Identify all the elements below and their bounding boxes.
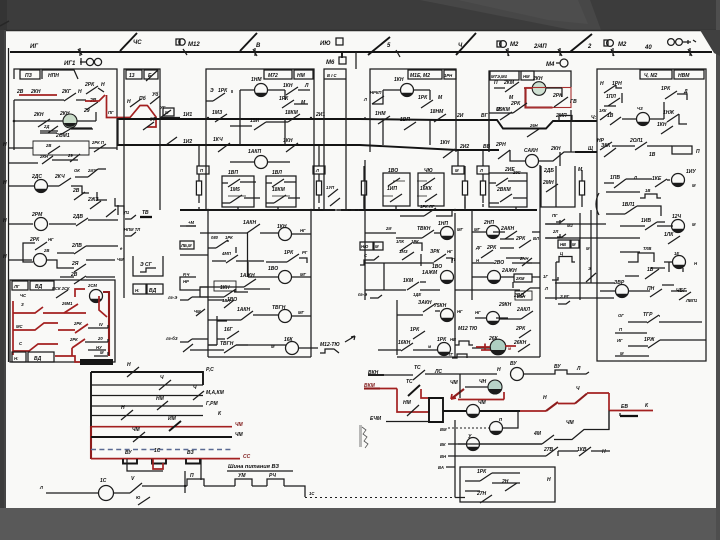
svg-text:ВГ: ВГ [481, 113, 489, 119]
svg-text:ВА: ВА [438, 465, 444, 470]
svg-text:ИГ1: ИГ1 [64, 61, 76, 67]
black frame box [429, 398, 443, 422]
header НВ М boxes [558, 240, 570, 248]
coil П [490, 422, 503, 435]
bracket mark in right box [596, 193, 599, 215]
svg-text:1ЛК: 1ЛК [664, 232, 674, 238]
wire y238 [545, 237, 640, 239]
coil 1БКН [441, 309, 454, 322]
svg-text:16КК: 16КК [420, 186, 433, 192]
node tick [558, 48, 562, 56]
row8 dashed blue [91, 449, 232, 451]
svg-text:ТЛВ: ТЛВ [643, 246, 651, 251]
black drop x201 [200, 459, 202, 480]
svg-text:20: 20 [97, 336, 103, 341]
svg-text:МГ: МГ [457, 227, 463, 232]
wire upper chain [142, 485, 187, 487]
svg-text:2РК: 2РК [515, 326, 526, 332]
svg-text:Р,Ч: Р,Ч [183, 272, 190, 277]
svg-text:2ДВ: 2ДВ [72, 214, 83, 220]
svg-text:ТГ: ТГ [448, 352, 454, 357]
row7 rail [91, 436, 232, 438]
svg-text:НГ: НГ [475, 310, 481, 315]
svg-text:1АКН: 1АКН [237, 307, 250, 313]
svg-text:М12-ТЮ: М12-ТЮ [320, 342, 340, 348]
wire box row y100 [14, 99, 55, 101]
red row2b [58, 329, 75, 331]
box outline [597, 69, 706, 361]
svg-text:16К: 16К [284, 337, 294, 343]
red row З extended [64, 312, 86, 314]
svg-text:М4: М4 [546, 62, 555, 68]
wire feeder x199 [198, 146, 200, 166]
svg-text:1Е: 1Е [674, 251, 679, 256]
svg-text:МГ: МГ [298, 310, 304, 315]
svg-text:Ч: Ч [576, 386, 580, 392]
header cell П [197, 166, 209, 174]
svg-text:+М: +М [188, 220, 194, 225]
coil 1РК [438, 343, 451, 356]
svg-text:1КМ: 1КМ [403, 278, 414, 284]
coil ЧН teal [488, 380, 502, 394]
wire [591, 450, 610, 452]
svg-text:2НН: 2НН [519, 256, 529, 261]
wire y210 верт feeders [238, 206, 516, 210]
svg-text:З: З [21, 302, 24, 307]
wire row y320 [208, 315, 279, 320]
svg-text:1РК: 1РК [225, 235, 233, 240]
wire rows [600, 285, 687, 291]
svg-text:15И: 15И [250, 118, 260, 124]
wire inner [372, 90, 430, 104]
svg-text:1Г: 1Г [543, 274, 548, 279]
wire drop ТС row to red ЧМ row [459, 374, 461, 398]
svg-text:М: М [100, 350, 104, 355]
symbol ОО circles [668, 39, 675, 46]
wire row [475, 318, 521, 319]
right gray edge [716, 0, 720, 540]
box bottom dashes [597, 360, 706, 362]
wire feeder x319 [318, 146, 320, 166]
header ВД bottom [28, 352, 54, 362]
svg-text:18НМ: 18НМ [430, 109, 444, 115]
red feed to coil [524, 87, 533, 89]
svg-text:П: П [190, 473, 194, 479]
svg-text:40: 40 [644, 45, 652, 51]
svg-text:2РК: 2РК [510, 101, 521, 107]
svg-text:2РК: 2РК [73, 321, 82, 326]
junction dots y210 [207, 209, 209, 211]
wire stub right of box [160, 117, 180, 119]
svg-text:ЧН: ЧН [479, 379, 487, 385]
wire coil right [546, 87, 562, 89]
svg-text:1РК: 1РК [418, 95, 428, 101]
box row y148 box [33, 141, 89, 155]
svg-text:П: П [696, 149, 700, 155]
wire row [60, 276, 115, 278]
svg-text:2/4П: 2/4П [533, 44, 547, 50]
svg-text:М,А,КМ: М,А,КМ [206, 390, 225, 396]
coil 1НМ [255, 84, 268, 97]
wire row y263 [380, 258, 452, 263]
dashes on mid bus [337, 209, 359, 211]
box outline [489, 71, 571, 152]
svg-text:М2: М2 [510, 42, 519, 48]
wire y346 band link [236, 344, 248, 346]
wire y224 [545, 223, 606, 225]
svg-text:2КН: 2КН [30, 89, 41, 95]
svg-text:НВ: НВ [560, 242, 566, 247]
svg-text:18КМ: 18КМ [272, 187, 286, 193]
insulator slash [368, 37, 390, 55]
wire row y233 [208, 232, 278, 234]
svg-text:НГ: НГ [300, 228, 306, 233]
header Н: bottom [12, 352, 26, 362]
svg-text:НР: НР [183, 279, 189, 284]
red drop [608, 393, 610, 411]
svg-text:1ВЛ1: 1ВЛ1 [622, 202, 635, 208]
wire row y320 col1 stub [305, 315, 311, 317]
wire verticals [556, 166, 591, 300]
underline [227, 470, 293, 472]
wire П right riser [503, 411, 518, 428]
wire feeder x483 [482, 151, 484, 166]
contact 2КМ low extra [520, 288, 530, 296]
svg-text:ТВГН: ТВГН [220, 341, 234, 347]
svg-text:ЗАКН: ЗАКН [418, 300, 432, 306]
svg-text:ЧС: ЧС [20, 293, 27, 298]
contact step3 [106, 209, 116, 217]
svg-text:2Н: 2Н [501, 479, 509, 485]
svg-text:ТВГН: ТВГН [272, 305, 286, 311]
box outline [124, 69, 160, 130]
svg-text:Ю: Ю [136, 495, 141, 500]
black tail НУ [88, 349, 106, 351]
wire row [620, 222, 673, 226]
svg-text:1АЖМ: 1АЖМ [422, 270, 438, 276]
svg-text:1ДЕ: 1ДЕ [413, 292, 421, 297]
svg-text:2ДС: 2ДС [31, 174, 42, 180]
header НПН [42, 70, 78, 79]
bus И2 gap fills [490, 150, 597, 152]
svg-text:1КЧ: 1КЧ [213, 137, 223, 143]
svg-text:ВД: ВД [149, 288, 157, 294]
coil 2КН green [63, 114, 77, 128]
svg-text:ВУ: ВУ [554, 364, 561, 370]
resistor col3 [361, 181, 366, 195]
svg-text:2РК: 2РК [515, 236, 526, 242]
svg-text:ИГ: ИГ [617, 338, 623, 343]
svg-text:ЕЧМ: ЕЧМ [370, 416, 382, 422]
header НМ [294, 70, 313, 79]
svg-text:ИЮ: ИЮ [320, 41, 331, 47]
svg-text:1МЗ: 1МЗ [212, 110, 223, 116]
wire y148 right [89, 147, 117, 149]
row2 rail [91, 384, 203, 386]
svg-text:Пб: Пб [139, 95, 147, 102]
svg-text:Ц: Ц [560, 251, 563, 256]
svg-text:НМ: НМ [523, 74, 530, 79]
dark bar under box [80, 359, 113, 365]
contact in 1ВО [388, 178, 400, 186]
wire main bus [10, 51, 712, 53]
svg-text:ЧЗ: ЧЗ [637, 106, 643, 111]
svg-text:1ВП: 1ВП [228, 170, 238, 176]
wire rail y232 col1 [180, 226, 208, 233]
resistor right [579, 181, 584, 195]
wire row [628, 340, 706, 346]
svg-text:Н: Н [543, 395, 547, 401]
wire [252, 485, 267, 487]
black drop x127 [127, 459, 163, 471]
svg-text:П: П [494, 80, 498, 86]
black tail hooks to red rail [107, 325, 109, 355]
contact Ч chain [130, 483, 142, 493]
wire col2 y290 [365, 289, 384, 291]
coil 26К teal [490, 339, 506, 355]
svg-text:2КН: 2КН [39, 154, 49, 159]
box 2ЬН col3 [515, 291, 532, 300]
svg-text:1РК ЛГ: 1РК ЛГ [420, 204, 435, 209]
wire x118 древо [117, 205, 119, 215]
svg-text:Л: Л [479, 168, 483, 173]
wire ЧМ row black [443, 410, 520, 412]
svg-text:2И2: 2И2 [459, 144, 469, 150]
svg-text:Л: Л [39, 485, 43, 490]
svg-text:2РК П: 2РК П [91, 140, 105, 145]
red zigzag in box 13 [130, 106, 147, 118]
red row3 [13, 344, 58, 351]
svg-text:ЧС: ЧС [133, 40, 142, 46]
svg-text:В I С: В I С [327, 73, 338, 78]
coil 1Е [673, 256, 686, 269]
black tails IV [88, 327, 108, 329]
svg-text:2ЬН: 2ЬН [516, 294, 526, 299]
svg-text:ГВ: ГВ [570, 99, 577, 105]
svg-text:2КМ: 2КМ [515, 276, 525, 281]
bus И2 [117, 145, 490, 150]
bus И1 pocket segment [516, 121, 557, 129]
junction dot [13, 120, 16, 123]
svg-text:2КН: 2КН [532, 76, 543, 82]
svg-text:НЮ: НЮ [361, 244, 369, 249]
wire rail x455 [454, 420, 456, 498]
svg-text:НМ: НМ [297, 73, 306, 79]
svg-text:Н: Н [497, 367, 501, 373]
wire y283 [555, 282, 615, 284]
svg-text:Н:: Н: [14, 356, 19, 361]
header НМ [521, 71, 534, 80]
box Н: ВД small [133, 284, 146, 294]
svg-text:1ПЛ: 1ПЛ [606, 94, 616, 100]
wire y163 row [8, 160, 78, 163]
svg-text:ЕВ: ЕВ [621, 404, 628, 410]
wire rail x217 [208, 344, 217, 346]
svg-text:МС: МС [16, 324, 23, 329]
svg-text:М: М [455, 168, 459, 173]
svg-text:лг-Э: лг-Э [167, 295, 177, 300]
node tick [611, 48, 614, 56]
header cell М [452, 166, 464, 174]
node tick x80 [78, 48, 82, 56]
wire [204, 485, 235, 487]
wire col2 С step link [365, 260, 380, 263]
svg-text:лг-бЗ: лг-бЗ [165, 336, 178, 341]
wire end [570, 372, 589, 374]
wire rail x124 below box2 [123, 130, 125, 298]
red wire [558, 403, 575, 405]
svg-text:ВУ: ВУ [510, 361, 517, 367]
header НВМ [674, 70, 704, 79]
black tail 20 [85, 341, 108, 343]
svg-text:2РН: 2РН [495, 142, 506, 148]
svg-text:ТС: ТС [414, 365, 421, 371]
row9 rail red [91, 458, 240, 460]
svg-text:Н: Н [602, 449, 606, 455]
coil 2НП [487, 226, 500, 239]
coil 2СМ [90, 290, 103, 303]
svg-text:Л: Л [363, 97, 367, 102]
svg-text:Э: Э [588, 266, 591, 271]
coil 2АЖН [488, 271, 501, 284]
wire row [384, 282, 440, 290]
svg-text:1МЗ: 1МЗ [399, 249, 408, 254]
box outline [14, 69, 117, 150]
svg-text:1М5: 1М5 [230, 187, 240, 193]
svg-text:ВД: ВД [35, 284, 43, 290]
svg-text:1АКП: 1АКП [248, 149, 261, 155]
red frame around 2СМ [75, 289, 85, 297]
wire col3 y232 left [528, 232, 540, 277]
coil ЧС bottom [99, 486, 114, 501]
wire row y315 [397, 311, 440, 315]
svg-text:2ВО: 2ВО [493, 260, 504, 266]
coil 1РН r [672, 220, 685, 233]
header cell Л [313, 166, 325, 174]
node tick [506, 48, 509, 56]
red row1b [43, 296, 107, 317]
svg-text:Л: Л [304, 83, 309, 89]
svg-text:2ДБ: 2ДБ [543, 168, 554, 174]
svg-text:1ВЛ: 1ВЛ [272, 170, 282, 176]
red highlight rect [526, 88, 571, 108]
svg-text:НПН: НПН [48, 73, 59, 79]
wire ВА row [446, 466, 455, 468]
wire row y350 [378, 349, 437, 351]
svg-text:ЧМ: ЧМ [235, 422, 244, 428]
wire col rails [365, 160, 472, 357]
svg-text:29КН: 29КН [498, 302, 512, 308]
svg-text:ЛГ: ЛГ [13, 284, 20, 289]
svg-text:1РК: 1РК [218, 88, 228, 94]
header В1С [324, 78, 346, 80]
svg-text:2В: 2В [16, 89, 24, 95]
svg-text:Л: Л [544, 286, 548, 291]
box Э СГ [133, 256, 163, 276]
wire rows [472, 277, 514, 290]
svg-text:МГ: МГ [300, 272, 306, 277]
wire y290 col3 [455, 289, 472, 291]
contact 1УП2 [330, 198, 340, 206]
svg-text:1РК: 1РК [661, 86, 671, 92]
wire feeder x458 [457, 151, 459, 166]
svg-text:ПГ: ПГ [552, 213, 558, 218]
wire col3 y263b [512, 262, 532, 264]
svg-text:ВУ: ВУ [125, 450, 132, 456]
svg-text:2РК: 2РК [29, 237, 40, 243]
svg-text:16Г: 16Г [224, 327, 234, 333]
red riser to coil [503, 392, 505, 400]
coil 2ДС [35, 180, 48, 193]
svg-text:1КН: 1КН [657, 122, 667, 128]
svg-text:ЧМ: ЧМ [478, 400, 487, 406]
svg-text:1РК: 1РК [477, 469, 487, 475]
wire row col2 y233 left [365, 232, 396, 234]
svg-text:НГ: НГ [48, 237, 54, 242]
wire row [248, 276, 279, 278]
red right vertical in ВД box [103, 292, 109, 356]
svg-text:М1Е, М2: М1Е, М2 [410, 73, 430, 79]
svg-text:ЧМ: ЧМ [235, 432, 244, 438]
resistor col1 [196, 181, 201, 195]
wire col3 rail [539, 165, 541, 357]
svg-text:ВМ: ВМ [440, 427, 447, 432]
svg-text:УГ: УГ [160, 105, 166, 110]
svg-text:Ч, М2: Ч, М2 [644, 73, 657, 79]
red continuation ЧМ row [520, 410, 546, 412]
svg-text:Э: Э [210, 88, 214, 94]
svg-text:М12 ТЮ: М12 ТЮ [458, 326, 477, 332]
red riser right [71, 348, 73, 356]
svg-text:1НМ: 1НМ [251, 77, 262, 83]
coil 1АЖМ [441, 271, 454, 284]
coil 2В left [34, 254, 47, 267]
svg-text:РГ: РГ [302, 250, 308, 255]
svg-text:2КМ: 2КМ [503, 80, 515, 86]
wire 2ВО low [502, 288, 540, 290]
svg-text:ВД: ВД [34, 356, 42, 362]
svg-text:1КН: 1КН [283, 83, 293, 89]
svg-text:М: М [620, 351, 624, 356]
header М72 [264, 70, 292, 79]
wire y255 col1 jog [180, 254, 208, 256]
svg-text:Э СГ: Э СГ [140, 262, 153, 268]
coil ЧЗУ [672, 174, 685, 187]
svg-text:2ВКМ: 2ВКМ [496, 187, 511, 193]
scribble marks left [362, 427, 368, 448]
svg-text:М: М [586, 246, 590, 251]
svg-text:ВН: ВН [440, 454, 447, 459]
header ВД [30, 281, 54, 290]
wire to М12-ТЮ [299, 347, 318, 349]
header ПЗ [20, 70, 40, 79]
contact ЧМ small [196, 309, 205, 316]
wire row [472, 347, 491, 349]
wire left rail red [90, 426, 92, 459]
svg-text:НПМ ТЛ: НПМ ТЛ [124, 227, 140, 232]
svg-text:1РК: 1РК [279, 96, 289, 102]
wire y263 col1 [247, 262, 249, 277]
coil ТВГН [279, 310, 292, 323]
svg-text:4МП: 4МП [221, 251, 232, 256]
resistor col5 [480, 181, 485, 195]
svg-text:2Л: 2Л [552, 229, 558, 234]
svg-text:2РК: 2РК [84, 82, 95, 88]
svg-text:1ИУ: 1ИУ [686, 169, 696, 175]
svg-text:НРКП: НРКП [370, 90, 382, 95]
svg-text:Н: Н [78, 89, 82, 95]
wire steps down to x118 [48, 186, 124, 215]
